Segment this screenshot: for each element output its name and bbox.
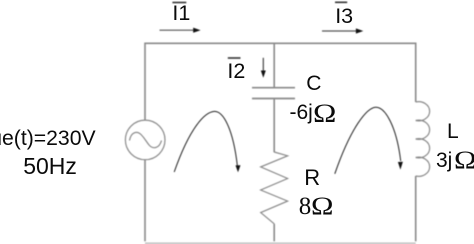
label 50Hz xyxy=(23,155,77,178)
label I2 xyxy=(227,61,245,83)
wire right lower xyxy=(415,176,417,241)
arrow for current I3 xyxy=(322,30,357,32)
label -6jΩ xyxy=(290,98,333,124)
overline of I1 xyxy=(172,2,186,4)
mesh current arrow loop 1 xyxy=(174,111,237,172)
overline of I3 xyxy=(335,1,347,3)
capacitor C bottom plate xyxy=(252,98,295,100)
label C xyxy=(306,73,321,94)
label 8Ω xyxy=(299,194,330,219)
wire left upper xyxy=(144,43,146,121)
arrow for current I2 (down) xyxy=(262,58,264,72)
capacitor C top plate xyxy=(252,87,295,89)
wire top horizontal xyxy=(145,42,416,44)
wire middle branch upper xyxy=(273,43,275,87)
AC source sine wave xyxy=(130,132,162,147)
label 3jΩ xyxy=(436,147,473,172)
overline of I2 xyxy=(228,57,241,59)
inductor L coil xyxy=(416,102,430,177)
wire right upper xyxy=(415,43,417,103)
label L xyxy=(447,121,459,142)
label I1 xyxy=(172,3,190,25)
wire left lower xyxy=(144,160,146,242)
label e(t)=230V xyxy=(0,128,96,149)
wire middle between cap and resistor xyxy=(273,99,275,152)
resistor R zigzag xyxy=(261,152,288,224)
label R xyxy=(304,167,320,189)
AC source e(t) xyxy=(125,120,165,160)
mesh current arrow loop 2 xyxy=(335,107,401,174)
arrow for current I1 xyxy=(160,29,196,31)
wire bottom horizontal xyxy=(145,242,416,244)
wire middle lower xyxy=(273,224,275,242)
label I3 xyxy=(335,6,353,28)
